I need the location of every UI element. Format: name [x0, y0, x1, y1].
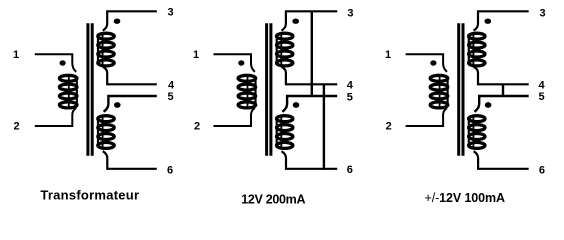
svg-text:6: 6 [539, 164, 545, 176]
wire pin 4 lead T3 [474, 67, 529, 84]
polarity dot secondary top T3 [485, 19, 492, 24]
secondary winding bottom coil T3 [469, 116, 485, 149]
polarity dot primary T1 [60, 60, 66, 65]
svg-text:3: 3 [168, 7, 174, 19]
transformer T3 core [459, 23, 463, 156]
wire pin 5 lead T2 [282, 96, 337, 112]
svg-text:6: 6 [167, 164, 173, 176]
secondary winding bottom coil T2 [277, 116, 293, 149]
svg-text:12V 200mA: 12V 200mA [241, 192, 305, 206]
primary winding coil T1 [59, 75, 77, 108]
polarity dot secondary top T1 [114, 19, 121, 24]
secondary winding bottom coil T1 [98, 116, 114, 149]
transformer T2 core [267, 23, 271, 156]
svg-text:Transformateur: Transformateur [40, 188, 139, 203]
polarity dot secondary bottom T3 [485, 102, 492, 108]
secondary winding top coil T2 [277, 33, 293, 66]
svg-text:6: 6 [347, 164, 353, 176]
wire pin 2 lead T3 [406, 108, 447, 126]
wire pin 5 lead T3 [474, 96, 528, 112]
wire pin 1 lead T3 [406, 54, 447, 72]
svg-text:5: 5 [539, 91, 545, 103]
polarity dot secondary bottom T1 [114, 102, 121, 108]
transformer T1 core [88, 23, 92, 156]
svg-text:2: 2 [14, 121, 20, 133]
wire pin 1 lead T2 [214, 54, 255, 72]
wire pin 1 lead T1 [35, 54, 76, 72]
svg-text:1: 1 [13, 49, 19, 61]
wire pin 3 lead T1 [103, 11, 157, 30]
wire pin 4 lead T2 [282, 67, 338, 84]
wire pin 3 lead T3 [474, 11, 529, 30]
svg-text:3: 3 [540, 8, 546, 20]
link wire pins 4-6 T2 [323, 84, 325, 170]
wire pin 2 lead T2 [214, 108, 255, 126]
secondary winding top coil T1 [98, 33, 114, 66]
polarity dot primary T3 [430, 60, 436, 65]
polarity dot primary T2 [238, 60, 244, 65]
wire pin 6 lead T1 [103, 151, 157, 169]
wire pin 3 lead T2 [282, 11, 338, 30]
wire pin 2 lead T1 [35, 108, 76, 126]
wire pin 6 lead T2 [282, 151, 338, 169]
svg-text:1: 1 [385, 49, 391, 61]
svg-text:+/-12V 100mA: +/-12V 100mA [425, 191, 506, 205]
wire pin 5 lead T1 [104, 96, 157, 112]
svg-text:2: 2 [386, 121, 392, 133]
primary winding coil T2 [238, 75, 256, 108]
svg-text:1: 1 [193, 49, 199, 61]
svg-text:5: 5 [347, 91, 353, 103]
svg-text:2: 2 [194, 121, 200, 133]
svg-text:4: 4 [347, 80, 354, 92]
svg-text:5: 5 [168, 91, 174, 103]
link wire pins 4-5 center tap T3 [502, 84, 504, 96]
secondary winding top coil T3 [469, 33, 485, 66]
link wire pins 3-5 T2 [311, 11, 313, 97]
polarity dot secondary bottom T2 [293, 102, 300, 108]
wire pin 4 lead T1 [103, 67, 157, 84]
primary winding coil T3 [430, 75, 448, 108]
wire pin 6 lead T3 [474, 151, 529, 169]
svg-text:3: 3 [347, 8, 353, 20]
polarity dot secondary top T2 [292, 19, 299, 24]
